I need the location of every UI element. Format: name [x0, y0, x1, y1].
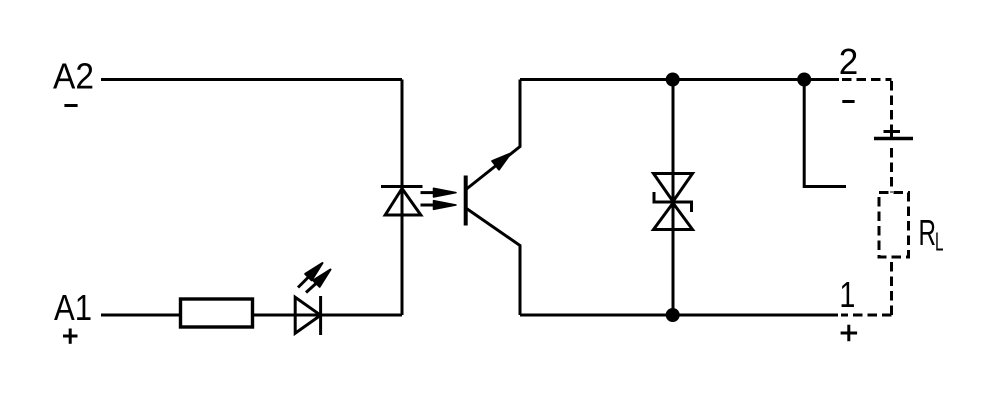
svg-text:1: 1 — [839, 274, 855, 315]
svg-text:A2: A2 — [53, 56, 94, 97]
svg-text:2: 2 — [839, 41, 859, 82]
svg-text:R: R — [919, 212, 937, 253]
svg-text:L: L — [935, 229, 944, 257]
svg-text:A1: A1 — [54, 287, 92, 328]
